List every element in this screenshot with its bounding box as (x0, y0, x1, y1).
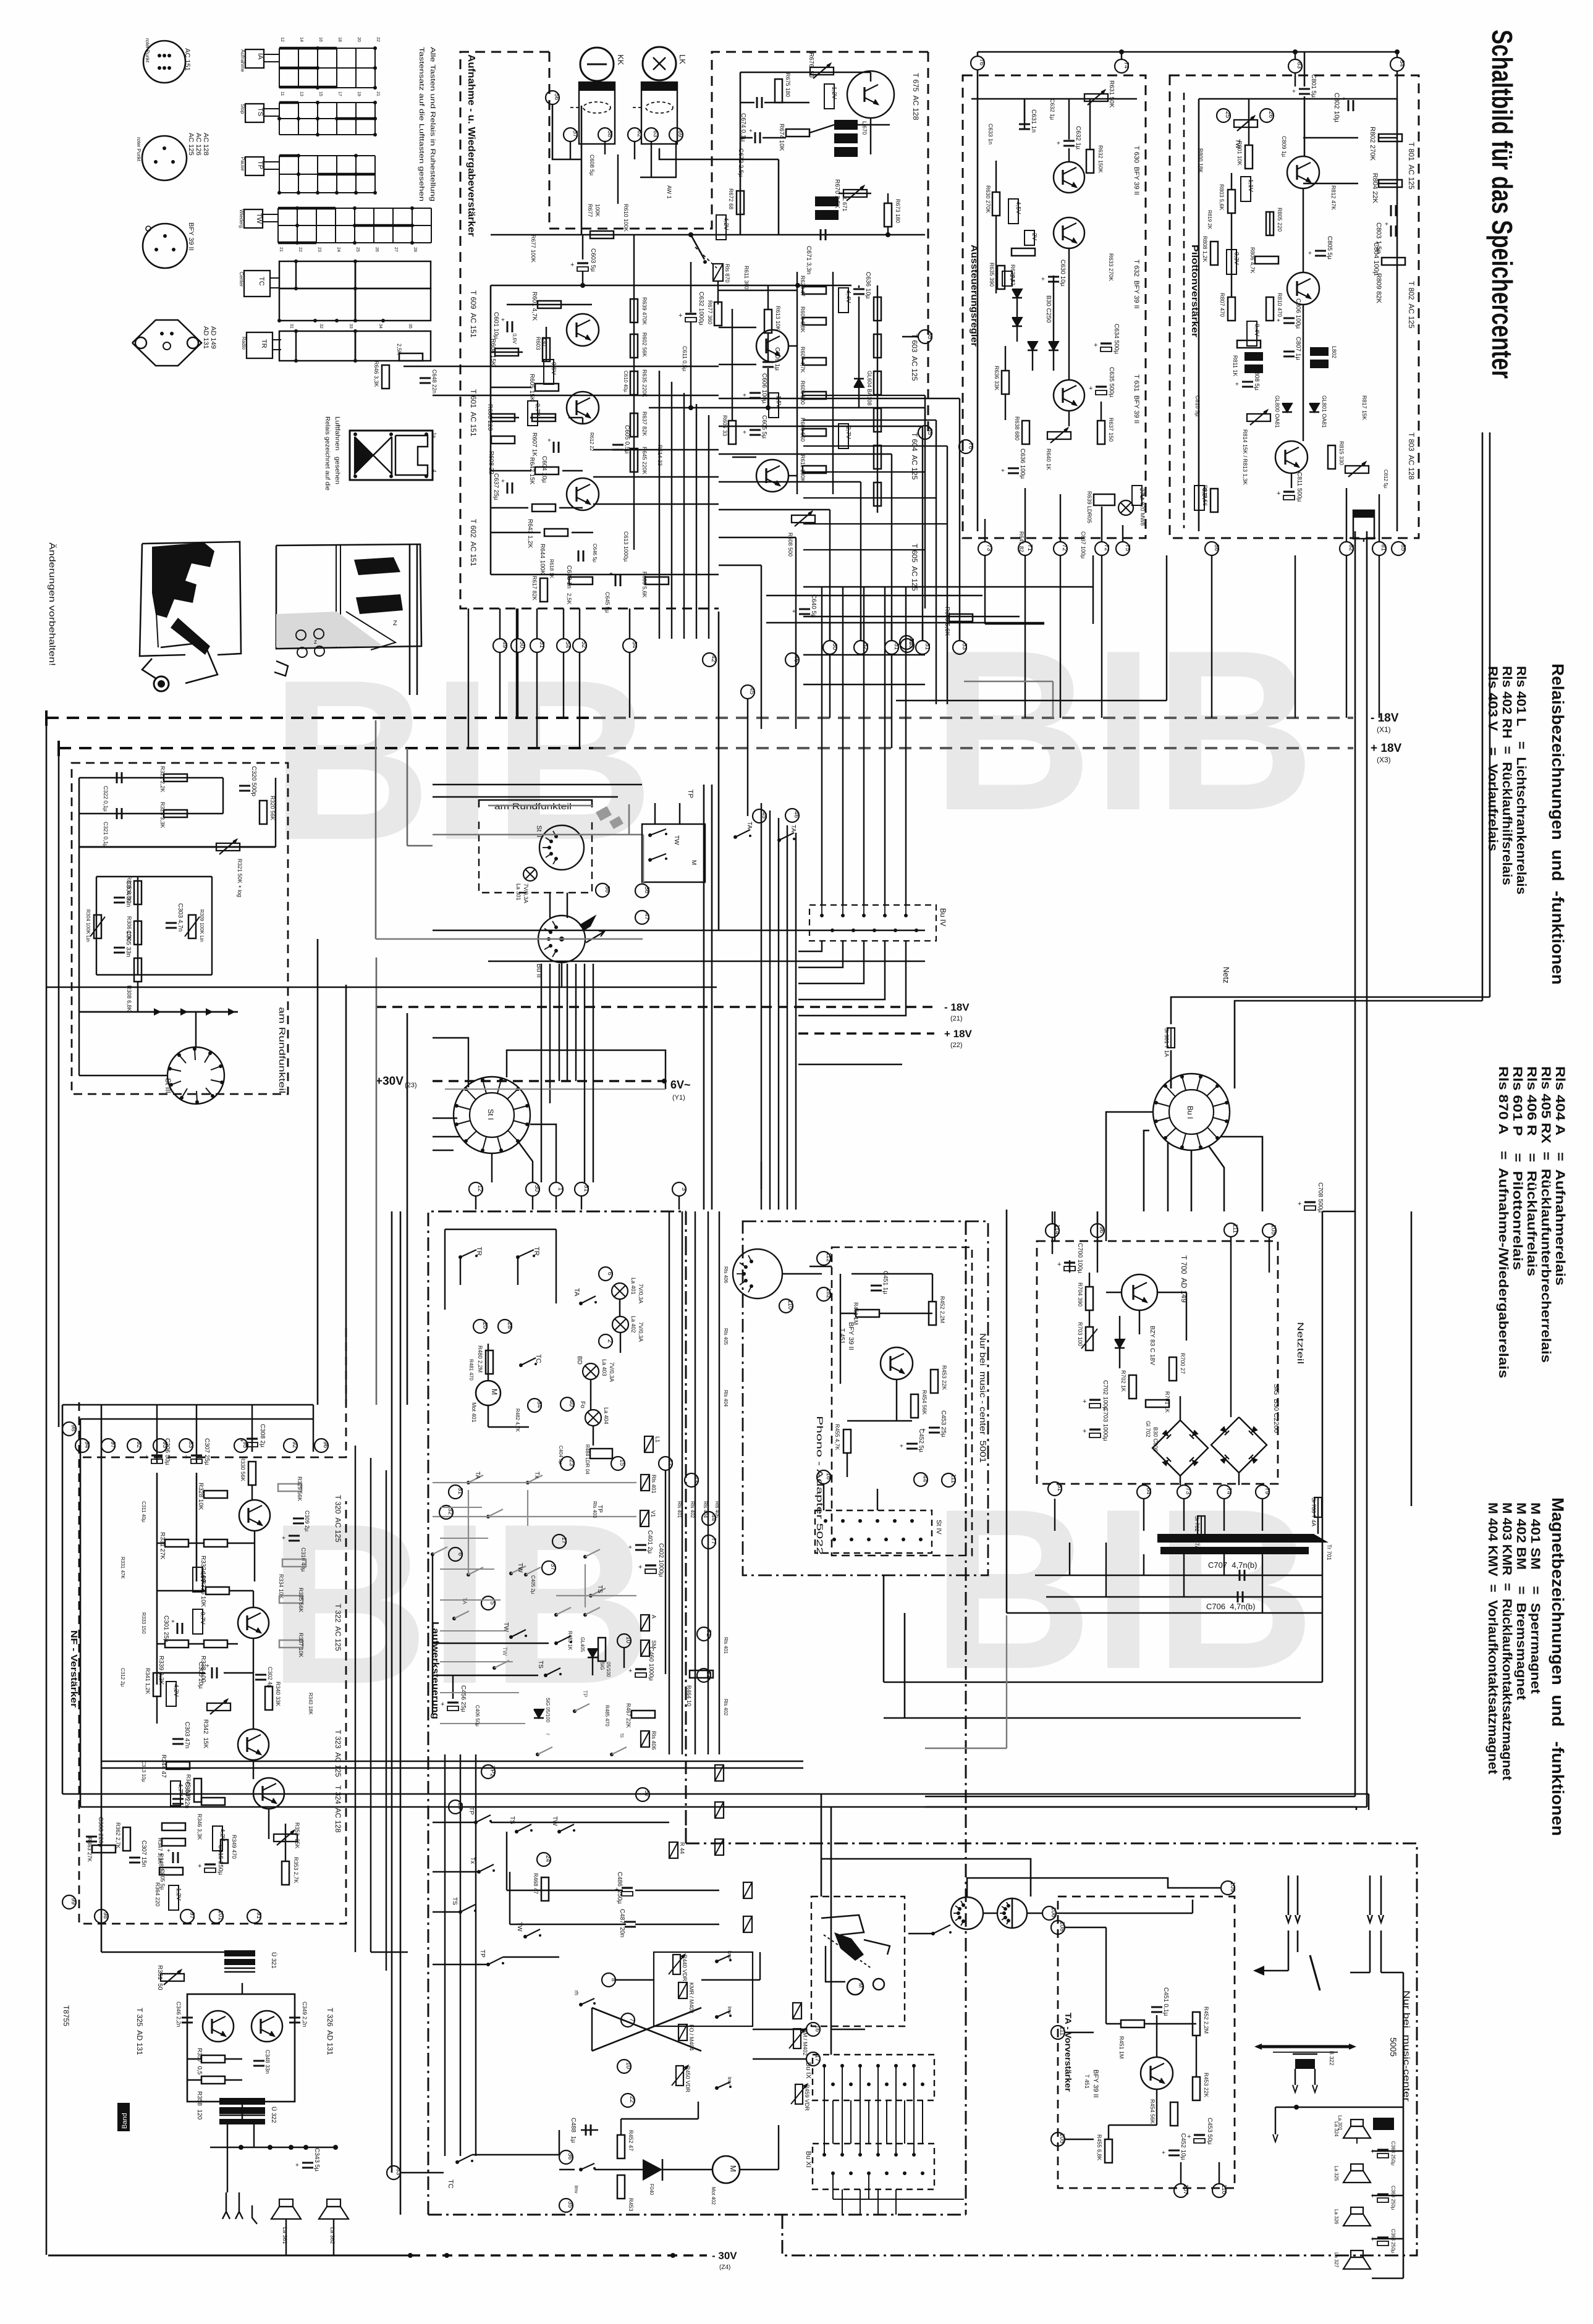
box music-center 5005 dash-dot (686, 1843, 1417, 2255)
svg-text:(X1): (X1) (1377, 725, 1391, 734)
capacitor C807 1u (1283, 351, 1295, 353)
capacitor C320 500p (239, 785, 250, 787)
svg-text:72: 72 (1061, 544, 1068, 552)
transistor pinout AC151 (143, 41, 185, 83)
svg-text:R452 2,2M: R452 2,2M (1203, 2006, 1209, 2034)
terminal 86 (1205, 542, 1219, 555)
capacitor C313 15n (129, 1857, 140, 1859)
voltage 4,2V (716, 215, 726, 240)
terminal 73b (1177, 1485, 1191, 1499)
capacitor C453 50u b (1194, 2134, 1205, 2136)
resistor R464 10 (690, 1670, 713, 1678)
svg-text:24: 24 (544, 1855, 551, 1863)
svg-text:7V/0,3A: 7V/0,3A (638, 1322, 644, 1342)
laufwerk extra relay row (743, 1882, 752, 1898)
svg-text:R450 VDR: R450 VDR (685, 2066, 691, 2093)
svg-text:0,3V: 0,3V (1233, 252, 1240, 265)
svg-text:106: 106 (1050, 1907, 1057, 1918)
terminal 42 (703, 653, 716, 667)
svg-text:Aufnahme - u. Wiedergabeverstä: Aufnahme - u. Wiedergabeverstärker (466, 54, 476, 237)
svg-text:83: 83 (1296, 62, 1303, 69)
svg-text:+: + (1001, 468, 1005, 474)
svg-text:lmv: lmv (727, 2077, 732, 2084)
svg-text:M: M (858, 1983, 864, 1988)
photoresistor R484 LDR04 (590, 1449, 612, 1459)
bus +18V(X3) rail (59, 747, 593, 749)
svg-text:L1: L1 (654, 1436, 661, 1442)
svg-text:R640 1K: R640 1K (1046, 448, 1052, 470)
resistor R640 2,5K (399, 353, 423, 361)
svg-text:R480 2,2M: R480 2,2M (477, 1345, 483, 1373)
resistor R804 22K (1379, 180, 1402, 187)
capacitor C486 250u (622, 1887, 633, 1888)
svg-text:R636 33K: R636 33K (994, 366, 1000, 390)
voltage 0,7V (193, 1609, 203, 1634)
svg-text:4,2V: 4,2V (722, 217, 729, 230)
svg-text:45: 45 (748, 688, 755, 695)
svg-text:12: 12 (667, 1459, 674, 1467)
svg-text:+: + (184, 1454, 188, 1461)
gray interconnect wires (433, 1482, 636, 1483)
terminal 36a (596, 883, 609, 897)
capacitor C811 500u (1283, 490, 1295, 492)
svg-text:Bu IV: Bu IV (939, 908, 947, 926)
svg-text:+: + (1089, 385, 1092, 392)
svg-text:BIB: BIB (932, 603, 1315, 858)
svg-text:C806 100µ: C806 100µ (1295, 298, 1301, 329)
wires lamps (556, 1229, 557, 1303)
wire amp outputs down to terminals (499, 608, 501, 639)
svg-text:TW: TW (516, 1922, 523, 1932)
svg-text:112: 112 (825, 1252, 832, 1262)
svg-text:R811 1K: R811 1K (1232, 355, 1238, 376)
svg-text:BFY 39 II: BFY 39 II (1092, 2069, 1099, 2098)
svg-text:TA: TA (573, 1288, 580, 1297)
wires from Bu XI down to box bottom (842, 2189, 843, 2215)
svg-text:71: 71 (1026, 544, 1033, 552)
svg-text:Bu XI: Bu XI (805, 2151, 812, 2168)
svg-text:C456 25µ: C456 25µ (460, 1685, 467, 1712)
svg-text:R459 VDR: R459 VDR (804, 2084, 810, 2111)
wire mains pair from pilot area down (1482, 432, 1484, 964)
svg-text:C702 100µ: C702 100µ (1102, 1380, 1109, 1410)
resistor R468 47 (541, 1877, 549, 1901)
wire bus pair to netzteil (1322, 1211, 1355, 1213)
terminal 33 (387, 2166, 400, 2179)
capacitor C808 5u (1242, 381, 1253, 383)
transistor TA-Vorverst (1141, 2057, 1173, 2089)
svg-text:Rls 401 L = Lichtschranken: Rls 401 L = Lichtschrankenrelais (1514, 666, 1528, 895)
capacitor C803 1,5n (1390, 205, 1392, 216)
vdr VDR c (793, 2029, 801, 2048)
transistor T322 (238, 1729, 269, 1760)
transistor T675 AC128 (847, 71, 894, 118)
capacitor C707 4,7n (1239, 1570, 1241, 1581)
svg-text:40: 40 (568, 1400, 575, 1407)
svg-text:R672 68: R672 68 (728, 188, 734, 209)
svg-text:Fo: Fo (579, 1401, 586, 1408)
rundfunk bottom rail with diodes (79, 1011, 238, 1013)
svg-text:+: + (1298, 1200, 1301, 1208)
svg-text:C312 2µ: C312 2µ (120, 1668, 125, 1687)
gray signal wires (433, 834, 643, 836)
svg-text:TS: TS (451, 1897, 458, 1905)
svg-text:24: 24 (336, 247, 340, 252)
svg-text:R809 82K: R809 82K (1375, 273, 1382, 304)
svg-text:C613 1000µ: C613 1000µ (623, 531, 629, 562)
terminal row under St I (469, 1182, 483, 1196)
svg-text:TP: TP (256, 161, 264, 169)
svg-text:7V/0,3A: 7V/0,3A (523, 883, 529, 903)
transistor T451 phono (881, 1347, 913, 1379)
contact TC (519, 1363, 523, 1367)
svg-text:55: 55 (908, 638, 915, 646)
voltage 1,1V (1241, 177, 1251, 201)
transformer U321 black bars (224, 1950, 255, 1956)
svg-text:AC 128: AC 128 (202, 133, 209, 156)
resistor R617 82K (540, 578, 547, 602)
wire bundle elbow into laufwerk (761, 1161, 762, 1210)
svg-text:R607 1K: R607 1K (531, 432, 538, 457)
extra laufwerk density: relay coils column (715, 1765, 724, 1781)
svg-text:R333 150: R333 150 (141, 1612, 146, 1634)
terminal 10b (617, 2060, 631, 2073)
svg-text:C302 4µ: C302 4µ (267, 1667, 273, 1688)
St I fan wires left (433, 1118, 457, 1119)
terminal 69 (669, 128, 683, 141)
svg-text:- 18V: - 18V (944, 1001, 970, 1013)
svg-text:Y: Y (389, 605, 394, 612)
capacitor C349 2,2n (289, 2017, 300, 2019)
terminal 107b (1174, 2184, 1188, 2197)
wire group from amp box bottom to right (803, 395, 925, 396)
svg-text:12: 12 (280, 37, 284, 42)
capacitor C488 1u (585, 2124, 587, 2136)
svg-text:1,1V: 1,1V (1247, 179, 1254, 192)
wire vertical pair x1139 (703, 785, 705, 1210)
svg-text:6: 6 (606, 1272, 613, 1276)
svg-text:55: 55 (926, 332, 933, 340)
svg-text:TR: TR (260, 339, 268, 348)
wire horizontal runs y1060 (803, 654, 925, 656)
svg-text:+: + (547, 437, 551, 444)
box am Rundfunkteil dashed (72, 763, 288, 1094)
transistor pinout BFY39 (143, 224, 187, 268)
svg-text:C700 100µ: C700 100µ (1076, 1243, 1083, 1273)
voltage 1,2V (169, 1885, 179, 1910)
long horizontals y2851/y2862 (101, 1761, 803, 1762)
resistor R362 2,7K (123, 1827, 130, 1851)
diode GL801 OA81 b (1309, 403, 1319, 412)
relay FO coil (678, 2024, 687, 2040)
svg-text:R633 270K: R633 270K (1108, 253, 1114, 281)
svg-text:C601 10µ: C601 10µ (492, 312, 499, 339)
capacitor C631 1n (1019, 124, 1030, 125)
wire quest vertical x1210 (747, 699, 748, 816)
wires short stubs under amp (536, 718, 538, 748)
terminal 13 (900, 639, 914, 652)
resistor R637 150 (1097, 421, 1105, 444)
svg-text:TP: TP (687, 789, 694, 798)
terminal 182 (817, 1287, 830, 1301)
resistor R702 1K (1129, 1375, 1136, 1399)
keyboard matrix IA (245, 49, 264, 68)
contact TS2 (515, 1830, 518, 1834)
svg-text:V1: V1 (650, 1510, 656, 1517)
capacitor C703 1000u (1089, 1428, 1101, 1430)
svg-text:R677 100K: R677 100K (530, 235, 536, 263)
svg-text:La 324: La 324 (1333, 2121, 1339, 2137)
svg-text:R484 LDR 04: R484 LDR 04 (585, 1444, 590, 1475)
svg-text:Laufwerksteuerung: Laufwerksteuerung (430, 1622, 441, 1719)
capacitor C306 50u (151, 1454, 163, 1456)
wire verticals feeding Bu IV (821, 587, 822, 905)
svg-text:60: 60 (831, 643, 838, 650)
diode GL800 OA81 a (1282, 403, 1292, 412)
wire amp right vertical x1290 (797, 272, 798, 494)
illustration lever mechanism (left) (152, 542, 214, 618)
svg-text:C321 0,1µ: C321 0,1µ (103, 822, 109, 848)
svg-text:R336 10K: R336 10K (200, 1580, 206, 1607)
svg-text:R805 220: R805 220 (1277, 208, 1283, 232)
resistor R348 22 (162, 1838, 185, 1846)
capacitor C645 5u (615, 575, 617, 586)
svg-text:C308 220p: C308 220p (97, 1817, 104, 1847)
svg-text:108: 108 (1058, 1921, 1065, 1932)
terminal 71b (697, 1627, 711, 1641)
relay KMR coil (678, 1982, 687, 1998)
trimmer R321 50K+log (216, 843, 240, 851)
wire horizontals top music box (797, 1793, 1369, 1795)
resistor R638 680 (1022, 421, 1029, 444)
wires pilot (1199, 98, 1397, 100)
resistor R613 10K (764, 309, 772, 333)
svg-text:+: + (145, 1454, 148, 1461)
capacitor C636 100u (1008, 468, 1019, 469)
resistor R644 100K (544, 529, 568, 536)
keyboard matrix TP (245, 157, 264, 175)
terminal 16 (806, 2023, 820, 2036)
contact TP2 (474, 1821, 478, 1824)
relay Rls401 coil (641, 1475, 649, 1491)
resistor R473 (617, 2175, 625, 2199)
resistor R635 390 (997, 266, 1005, 289)
svg-text:R602 56K: R602 56K (641, 332, 648, 357)
svg-text:1a: 1a (431, 432, 437, 438)
terminal 22 (621, 2094, 635, 2107)
svg-text:22: 22 (628, 2096, 635, 2103)
resistor R814 15K (1247, 414, 1270, 421)
svg-text:T 451: T 451 (1084, 2074, 1090, 2089)
terminal 35 (559, 2199, 573, 2212)
svg-text:C635 500µ: C635 500µ (1108, 367, 1115, 397)
svg-text:(22): (22) (950, 1042, 963, 1049)
gray wire lower (1006, 1615, 1007, 1748)
connector Bu IV dashed box (809, 905, 936, 941)
resistor R606 220 (491, 414, 515, 421)
svg-text:0,4V: 0,4V (1253, 324, 1260, 337)
terminal 110 (779, 1299, 793, 1313)
terminal 111b (1224, 1223, 1238, 1237)
wires below ta box (1180, 2162, 1181, 2184)
capacitor C303 4,7n (166, 922, 177, 924)
wire long left verticals (821, 1794, 822, 1897)
svg-text:R806 4,7K: R806 4,7K (1249, 247, 1256, 274)
svg-text:R807 470: R807 470 (1219, 293, 1225, 317)
record changer mechanics (821, 1915, 864, 1935)
svg-text:R483 1K: R483 1K (567, 1631, 573, 1651)
voltage boxes amp right (839, 288, 848, 313)
capacitor C343 5u (302, 2162, 313, 2164)
svg-text:C363 250µ: C363 250µ (1390, 2186, 1396, 2210)
svg-text:42: 42 (710, 655, 717, 663)
wire y2611 run (1007, 1612, 1322, 1614)
svg-text:TW: TW (502, 1647, 508, 1656)
resistor R463 (598, 1638, 606, 1661)
transistor T324 (253, 1778, 284, 1809)
svg-text:Rls 405 RX = Rücklaufunterbr: Rls 405 RX = Rücklaufunterbrecherrelais (1539, 1066, 1553, 1363)
verticals netzteil top to terminals (1054, 1211, 1055, 1241)
svg-text:Tr 701: Tr 701 (1326, 1544, 1332, 1560)
svg-text:C363 250µ: C363 250µ (1390, 2229, 1396, 2254)
svg-text:R635 390: R635 390 (989, 263, 995, 287)
resistor R328 10K (204, 1491, 227, 1498)
wires terminals to laufwerk box (475, 1196, 476, 1210)
svg-text:L 670: L 670 (861, 121, 868, 135)
svg-text:BFY 39 II: BFY 39 II (187, 222, 195, 251)
resistor R306 10K (134, 921, 142, 945)
contact TW3 (557, 1830, 561, 1834)
contact lmv b (715, 2086, 719, 2090)
capacitor C632 1u (1063, 140, 1075, 142)
svg-text:T 322 AC 125: T 322 AC 125 (334, 1604, 342, 1651)
svg-text:30: 30 (533, 1185, 540, 1192)
transistor T631 (1054, 380, 1084, 411)
svg-text:R609 5,6K: R609 5,6K (641, 571, 648, 598)
wire y640 long run (433, 395, 719, 397)
resistor col2 amp right (874, 297, 881, 321)
jack pair 1 (1288, 1876, 1290, 1915)
svg-text:NF - Verstärker: NF - Verstärker (69, 1630, 79, 1707)
resistor column amp right (803, 287, 826, 294)
terminal 44 (702, 1512, 716, 1525)
photoresistor LDR05 box (1094, 494, 1115, 505)
svg-text:R676 50: R676 50 (808, 53, 814, 78)
svg-text:Pause: Pause (240, 157, 245, 171)
wires vdr net (615, 1979, 654, 1981)
svg-text:109: 109 (1229, 1882, 1236, 1892)
svg-text:kmr: kmr (727, 1951, 732, 1960)
svg-text:28: 28 (506, 1322, 513, 1329)
svg-text:R677 360: R677 360 (707, 300, 713, 324)
svg-text:R606 500: R606 500 (800, 381, 806, 405)
svg-text:R346 3,3K: R346 3,3K (196, 1814, 203, 1840)
svg-text:Rls 401: Rls 401 (677, 1501, 682, 1518)
capacitor C637 25u (507, 482, 509, 494)
transistor T325 AD131 (203, 2011, 234, 2042)
terminal 96 (1091, 1224, 1104, 1237)
capacitor C636 10u (853, 288, 864, 290)
svg-text:TC: TC (258, 277, 265, 286)
voltage 4,5V (1008, 199, 1018, 224)
terminal drops from row y1045 to bus (499, 652, 501, 718)
wire top y84 (978, 51, 1397, 53)
amp lower horizontals (593, 449, 719, 450)
wires NF top (62, 1404, 313, 1406)
wire head LK links (659, 148, 779, 159)
svg-text:11: 11 (280, 91, 284, 96)
contact TR b (516, 1255, 520, 1259)
wire aussteuerung top rail (971, 98, 1137, 100)
capacitor C309 2u gray (293, 1518, 304, 1520)
svg-text:R803 5,6K: R803 5,6K (1219, 184, 1225, 211)
wire run verticals below terminals (984, 555, 986, 624)
svg-text:GL405: GL405 (580, 1637, 585, 1652)
resistor R347 13K (162, 1823, 185, 1830)
svg-text:C608 5µ: C608 5µ (589, 154, 595, 175)
svg-text:62: 62 (636, 130, 643, 138)
terminal 98 (62, 1422, 76, 1436)
svg-text:56: 56 (553, 93, 560, 101)
svg-text:C671 3,3n: C671 3,3n (805, 246, 812, 274)
svg-text:+: + (501, 317, 505, 324)
svg-text:F040: F040 (649, 2184, 654, 2196)
svg-text:R641 82: R641 82 (1018, 531, 1025, 552)
svg-text:TP: TP (582, 1690, 588, 1698)
inductor L801 black (1244, 352, 1263, 361)
box music-center 5001 inner dashed (832, 1247, 972, 1556)
terminal 17 (806, 2052, 820, 2066)
svg-text:R454 56K: R454 56K (1149, 2099, 1156, 2124)
svg-text:75: 75 (1124, 544, 1131, 552)
NF right-side long verticals (355, 1446, 356, 1952)
capacitor C801 5u (1299, 88, 1310, 90)
transistor pinout AC125/126/128 (142, 136, 187, 180)
terminal 40 (560, 1397, 574, 1411)
vdr VDR b (676, 2066, 683, 2086)
svg-text:St II: St II (535, 825, 543, 838)
voltage 0,3V (1227, 250, 1236, 274)
svg-text:53: 53 (961, 643, 968, 650)
svg-text:Aufnahme: Aufnahme (240, 49, 245, 72)
resistor R338 100 (204, 1640, 227, 1648)
zener BZY83 C18V (1115, 1339, 1125, 1348)
keyboard matrix TW (244, 209, 263, 228)
diode GL604 BA108 (854, 379, 864, 387)
DIN socket Bu II (538, 916, 585, 962)
svg-text:C637 25µ: C637 25µ (492, 473, 499, 500)
vertical bundle amp to terminals (659, 371, 660, 639)
svg-text:R331 47K: R331 47K (120, 1557, 125, 1579)
svg-text:Stop: Stop (240, 104, 245, 114)
resistor R674 10K (786, 129, 809, 137)
svg-text:+: + (240, 1437, 243, 1444)
svg-text:49: 49 (501, 641, 508, 649)
keyboard matrix extra dots (277, 117, 281, 120)
resistor R454 56K (911, 1394, 918, 1418)
terminal 24 (537, 1853, 551, 1866)
fuse Si700 (1314, 1497, 1322, 1517)
svg-text:C810 5µ: C810 5µ (1194, 395, 1201, 416)
box Netzteil dashed (1037, 1241, 1278, 1484)
resistor R467 22K (632, 1711, 655, 1718)
svg-text:26: 26 (457, 1803, 463, 1810)
svg-text:(21): (21) (950, 1015, 963, 1022)
label Band black tag (117, 2103, 130, 2131)
resistor R472 47 (617, 2135, 625, 2158)
svg-text:36: 36 (567, 2153, 573, 2160)
svg-text:T 632 BFY 39 II: T 632 BFY 39 II (1133, 259, 1140, 309)
